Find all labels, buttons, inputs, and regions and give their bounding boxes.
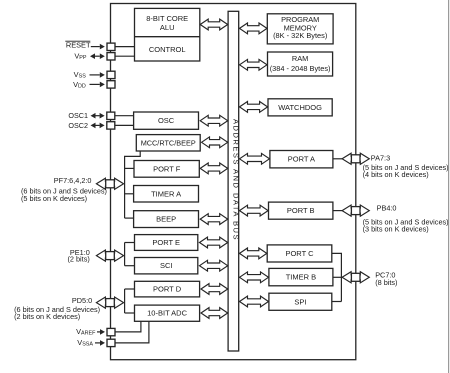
svg-text:ALU: ALU (160, 23, 175, 32)
wire PF bus to BEEP (125, 217, 134, 219)
svg-text:(8K - 32K Bytes): (8K - 32K Bytes) (273, 31, 327, 40)
arrow VAREF (97, 329, 105, 335)
pin arrow PF7:6,4,2:0 (96, 178, 123, 189)
address and data bus bar (228, 11, 240, 351)
wire PD bus to ADC (125, 312, 135, 314)
block PORT B (269, 202, 333, 219)
arrow VDD (90, 82, 105, 88)
pin OSC2 (107, 122, 115, 129)
pin arrow PE1:0 (96, 250, 123, 261)
svg-text:RAM: RAM (292, 54, 308, 63)
svg-text:MCC/RTC/BEEP: MCC/RTC/BEEP (141, 138, 196, 147)
block TIMER A (134, 186, 199, 203)
wire PD local bus (124, 289, 126, 313)
svg-text:SCI: SCI (160, 261, 173, 270)
wire MCC elbow to PF local bus (125, 151, 141, 218)
bus arrow OSC (200, 115, 228, 126)
wire PE bus to SCI (125, 265, 135, 267)
svg-text:(2 bits on K devices): (2 bits on K devices) (14, 312, 80, 321)
wire PORT B to pin PB (333, 210, 343, 212)
pin VAREF (107, 328, 115, 335)
svg-text:CONTROL: CONTROL (149, 45, 186, 54)
block OSC (134, 112, 199, 129)
svg-text:PORT C: PORT C (285, 249, 314, 258)
svg-text:RESET: RESET (66, 41, 91, 50)
arrow VSSA (95, 340, 105, 346)
bus arrow PORT B (240, 205, 269, 216)
svg-text:VAREF: VAREF (76, 327, 96, 337)
block PORT E (135, 235, 198, 251)
svg-text:VSSA: VSSA (77, 338, 93, 348)
bus arrow PORT E (200, 237, 228, 248)
block SCI (135, 258, 198, 274)
wire PE local bus (124, 243, 126, 266)
pin arrow PD5:0 (96, 297, 123, 308)
block 10-BIT ADC (135, 305, 200, 321)
bus arrow ALU (200, 19, 228, 30)
svg-text:OSC: OSC (158, 116, 175, 125)
svg-text:PORT D: PORT D (153, 285, 182, 294)
wire VPP pin to CONTROL (111, 55, 135, 57)
arrow RESET (91, 44, 105, 50)
svg-text:10-BIT ADC: 10-BIT ADC (147, 309, 187, 318)
block watchdog (268, 99, 332, 116)
pin OSC1 (107, 112, 115, 119)
svg-text:PORT E: PORT E (152, 238, 180, 247)
svg-text:(4 bits on K devices): (4 bits on K devices) (363, 170, 429, 179)
wire PE bus to PORT E (125, 242, 135, 244)
bus arrow program memory (240, 23, 268, 34)
wire SPI elbow (332, 301, 342, 303)
wire TIMER B to pin PC (333, 276, 343, 278)
faint page border right edge (448, 0, 449, 373)
svg-text:VDD: VDD (73, 80, 86, 90)
arrow VPP (90, 53, 105, 59)
svg-text:BEEP: BEEP (156, 215, 176, 224)
svg-text:TIMER B: TIMER B (286, 273, 316, 282)
svg-text:(2 bits): (2 bits) (67, 254, 89, 263)
svg-text:TIMER A: TIMER A (151, 189, 181, 198)
bus arrow watchdog (240, 102, 268, 113)
pin arrow PA7:3 (342, 153, 369, 164)
wire VSSA pin to ADC (111, 321, 149, 343)
bus arrow PORT D (201, 284, 228, 295)
arrow OSC2 (91, 123, 105, 129)
svg-text:PF7:6,4,2:0: PF7:6,4,2:0 (54, 176, 92, 185)
bus arrow SPI (240, 296, 269, 307)
arrow OSC1 (91, 113, 105, 119)
svg-text:ADDRESS AND DATA BUS: ADDRESS AND DATA BUS (231, 119, 240, 241)
svg-text:PORT B: PORT B (287, 206, 315, 215)
svg-text:(8 bits): (8 bits) (375, 278, 397, 287)
block PORT A (270, 151, 333, 168)
block MCC/RTC/BEEP (136, 135, 200, 151)
svg-text:WATCHDOG: WATCHDOG (278, 103, 322, 112)
bus arrow 10-BIT ADC (201, 308, 228, 319)
svg-text:(3 bits on K devices): (3 bits on K devices) (363, 224, 429, 233)
pin VPP (107, 53, 115, 60)
svg-text:OSC2: OSC2 (68, 121, 88, 130)
pin VSS (107, 71, 115, 78)
pin arrow PB4:0 (342, 205, 369, 216)
bus arrow PORT A (240, 153, 270, 164)
svg-text:VSS: VSS (74, 70, 87, 80)
svg-text:VPP: VPP (74, 52, 87, 62)
svg-text:8-BIT CORE: 8-BIT CORE (146, 14, 188, 23)
wire PORT A to pin PA (333, 158, 343, 160)
block BEEP (134, 211, 199, 228)
svg-text:OSC1: OSC1 (68, 111, 88, 120)
svg-text:PB4:0: PB4:0 (377, 203, 397, 212)
bus arrow PORT F (200, 163, 228, 174)
wire VAREF pin to ADC (111, 321, 141, 332)
block program memory (267, 14, 333, 44)
bus arrow TIMER B (240, 272, 269, 283)
bus arrow PORT C (240, 248, 267, 259)
block PORT D (135, 281, 200, 297)
bus arrow SCI (200, 260, 228, 271)
wire PF bus to PORT F (125, 167, 134, 169)
wire RESET pin to CONTROL (111, 46, 135, 48)
wire OSC1 pin to OSC (111, 115, 134, 117)
wire PD bus to PORT D (125, 288, 135, 290)
bus arrow BEEP (200, 214, 228, 225)
svg-text:PORT F: PORT F (153, 164, 181, 173)
pin VSSA (107, 339, 115, 346)
block SPI (269, 293, 332, 310)
label RESET (active low) (65, 41, 91, 50)
block PORT C (267, 245, 332, 262)
pin VDD (107, 81, 115, 88)
chip outer boundary (111, 4, 356, 360)
svg-text:SPI: SPI (294, 297, 306, 306)
block 8-bit core ALU / control (135, 8, 200, 61)
svg-text:PORT A: PORT A (288, 155, 315, 164)
wire OSC2 pin to OSC (111, 124, 134, 126)
arrow VSS (90, 72, 105, 78)
block PORT F (134, 161, 199, 178)
svg-text:(5 bits on K devices): (5 bits on K devices) (21, 194, 87, 203)
block TIMER B (269, 268, 333, 285)
block RAM (268, 52, 333, 76)
pin arrow PC7:0 (342, 272, 369, 283)
pin RESET (107, 43, 115, 50)
svg-text:(384 - 2048 Bytes): (384 - 2048 Bytes) (270, 64, 331, 73)
bus arrow MCC/RTC/BEEP (202, 137, 228, 148)
wire PF bus to TIMER A (125, 193, 134, 195)
wire PORT C elbow (332, 253, 342, 301)
svg-text:PA7:3: PA7:3 (371, 154, 390, 163)
svg-text:PD5:0: PD5:0 (72, 296, 92, 305)
bus arrow RAM (240, 59, 268, 70)
